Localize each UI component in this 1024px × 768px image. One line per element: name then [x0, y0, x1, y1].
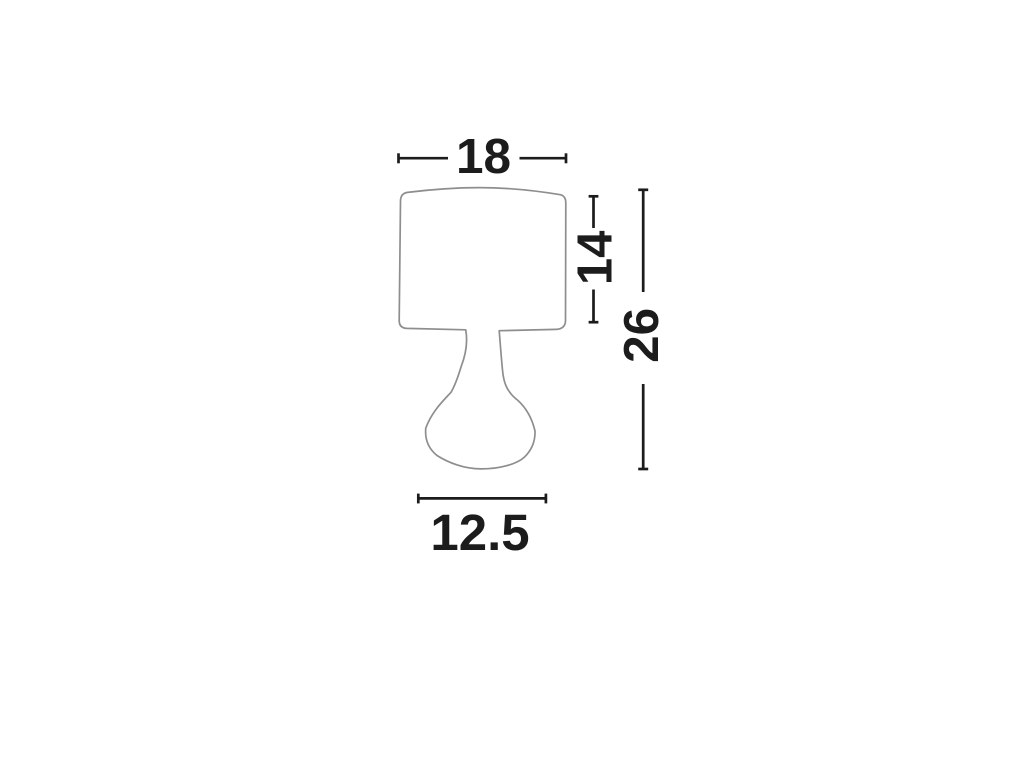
- dimension 18 : line with end ticks (top): [399, 153, 567, 163]
- dimension 12.5 : line with end ticks (bottom): [418, 494, 546, 504]
- lamp body outline (shade + stem + base): [399, 188, 566, 469]
- dimension 14 : vertical line with end ticks (right of shade): [589, 196, 599, 322]
- svg-text:14: 14: [568, 231, 622, 286]
- dimension 26 : vertical line with end ticks (far right): [638, 190, 648, 469]
- svg-text:18: 18: [456, 129, 511, 184]
- svg-text:12.5: 12.5: [430, 504, 529, 561]
- svg-text:26: 26: [614, 308, 669, 363]
